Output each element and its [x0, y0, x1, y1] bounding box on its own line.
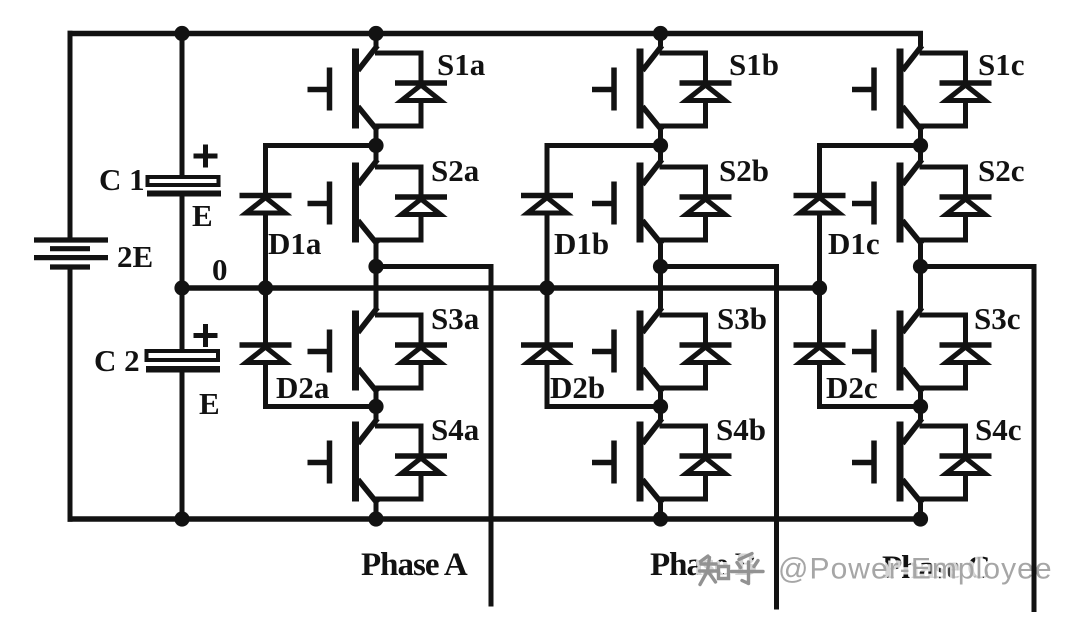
wire: S4b collector stub: [658, 407, 663, 420]
svg-text:S3a: S3a: [431, 301, 480, 336]
junction node S3b-S4b: [653, 399, 668, 414]
junction node DC- / phase B: [653, 511, 668, 526]
wire: D1a branch vertical: [263, 143, 268, 288]
IGBT switch S4a: [308, 419, 378, 504]
svg-text:S4c: S4c: [975, 412, 1022, 447]
junction node DC+ / phase A: [368, 26, 383, 41]
svg-text:D2c: D2c: [826, 370, 878, 405]
wire: D2a branch vertical: [263, 288, 268, 409]
svg-text:E: E: [192, 198, 213, 233]
freewheel diode of S1a: [375, 53, 447, 126]
junction node DC- / C2: [174, 511, 189, 526]
freewheel diode of S2c: [920, 167, 992, 240]
freewheel diode of S3c: [920, 315, 992, 388]
IGBT switch S4b: [592, 419, 662, 504]
IGBT switch S2b: [592, 160, 662, 245]
wire: S1a emitter stub: [374, 130, 379, 146]
wire: D1c branch vertical: [817, 143, 822, 288]
clamp diode D2b: [521, 345, 573, 363]
svg-text:D2b: D2b: [550, 370, 605, 405]
svg-text:0: 0: [212, 252, 228, 287]
svg-text:S1a: S1a: [437, 47, 486, 82]
junction node D1b-D2b neutral tap: [539, 280, 554, 295]
wire: phase C output: [921, 267, 1035, 613]
junction node phase B output: [653, 259, 668, 274]
svg-text:2E: 2E: [117, 239, 153, 274]
wire: clamp upper link (J12 to D1b): [545, 143, 661, 148]
wire: left DC link upper segment: [68, 31, 73, 238]
junction node S3c-S4c: [913, 399, 928, 414]
wire: S3a emitter stub: [374, 392, 379, 407]
wire: clamp lower link (D2c to J34): [817, 404, 921, 409]
clamp diode D1b: [521, 196, 573, 214]
capacitor C2 (electrolytic): [146, 351, 220, 373]
wire: C2 top lead: [180, 288, 185, 352]
capacitor C1 (electrolytic): [147, 177, 221, 197]
junction node DC- / phase C: [913, 511, 928, 526]
freewheel diode of S2a: [375, 167, 447, 240]
C1 plus polarity mark: [194, 145, 218, 168]
wire: C1 bottom lead: [180, 197, 185, 289]
IGBT switch S4c: [852, 419, 922, 504]
junction node S1b-S2b: [653, 138, 668, 153]
svg-text:S4a: S4a: [431, 412, 480, 447]
svg-text:C 2: C 2: [94, 343, 140, 378]
junction node phase A output: [368, 259, 383, 274]
wire: D2b branch vertical: [545, 288, 550, 409]
wire: S3c collector stub: [918, 267, 923, 309]
svg-text:D1b: D1b: [554, 226, 609, 261]
junction node D1c-D2c neutral tap: [812, 280, 827, 295]
svg-text:S1b: S1b: [729, 47, 779, 82]
svg-text:S2a: S2a: [431, 153, 480, 188]
junction node S1a-S2a: [368, 138, 383, 153]
wire: D1b branch vertical: [545, 143, 550, 288]
wire: S4c emitter stub: [918, 503, 923, 519]
freewheel diode of S4c: [920, 426, 992, 499]
wire: S4a collector stub: [374, 407, 379, 420]
IGBT switch S1a: [308, 46, 378, 131]
wire: S3a collector stub: [374, 267, 379, 309]
IGBT switch S3b: [592, 308, 662, 393]
wire: C1 top lead: [180, 34, 185, 179]
freewheel diode of S4a: [375, 426, 447, 499]
wire: S1b emitter stub: [658, 130, 663, 146]
IGBT switch S3c: [852, 308, 922, 393]
wire: phase B output: [661, 267, 777, 610]
svg-text:S2b: S2b: [719, 153, 769, 188]
wire: D2c branch vertical: [817, 288, 822, 409]
wire: clamp lower link (D2a to J34): [263, 404, 376, 409]
svg-text:D1c: D1c: [828, 226, 880, 261]
junction node 0 (neutral): [174, 280, 189, 295]
IGBT switch S3a: [308, 308, 378, 393]
clamp diode D2c: [794, 345, 846, 363]
freewheel diode of S1c: [920, 53, 992, 126]
wire: S1a collector stub: [374, 34, 379, 47]
wire: S4a emitter stub: [374, 503, 379, 519]
IGBT switch S2a: [308, 160, 378, 245]
clamp diode D2a: [240, 345, 292, 363]
junction node S1c-S2c: [913, 138, 928, 153]
watermark zhihu @Power-Employee: [700, 553, 1053, 586]
wire: S4c collector stub: [918, 407, 923, 420]
clamp diode D1c: [794, 196, 846, 214]
wire: left DC link lower segment: [68, 270, 73, 522]
wire: S4b emitter stub: [658, 503, 663, 519]
wire: clamp upper link (J12 to D1a): [263, 143, 376, 148]
wire: C2 bottom lead: [180, 373, 185, 520]
junction node DC+ / C1: [174, 26, 189, 41]
wire: phase A output: [376, 267, 491, 607]
wire: neutral 0 bus: [182, 285, 820, 291]
battery 2E source: [34, 240, 108, 267]
wire: S3b emitter stub: [658, 392, 663, 407]
wire: S1b collector stub: [658, 34, 663, 47]
wire: S3b collector stub: [658, 267, 663, 309]
freewheel diode of S3a: [375, 315, 447, 388]
svg-text:D2a: D2a: [276, 370, 330, 405]
C2 plus polarity mark: [194, 324, 218, 347]
svg-text:S4b: S4b: [716, 412, 766, 447]
junction node phase C output: [913, 259, 928, 274]
junction node DC+ / phase B: [653, 26, 668, 41]
svg-text:C 1: C 1: [99, 162, 145, 197]
IGBT switch S2c: [852, 160, 922, 245]
wire: clamp upper link (J12 to D1c): [817, 143, 921, 148]
wire: S2c collector stub: [918, 146, 923, 161]
svg-text:S1c: S1c: [978, 47, 1025, 82]
freewheel diode of S3b: [660, 315, 732, 388]
freewheel diode of S1b: [660, 53, 732, 126]
junction node D1a-D2a neutral tap: [258, 280, 273, 295]
svg-text:S2c: S2c: [978, 153, 1025, 188]
svg-text:S3c: S3c: [974, 301, 1021, 336]
wire: clamp lower link (D2b to J34): [545, 404, 661, 409]
svg-text:Phase A: Phase A: [361, 547, 468, 583]
wire: S1c emitter stub: [918, 130, 923, 146]
wire: S2a collector stub: [374, 146, 379, 161]
svg-text:@Power-Employee: @Power-Employee: [778, 553, 1053, 586]
wire: S2b collector stub: [658, 146, 663, 161]
IGBT switch S1b: [592, 46, 662, 131]
clamp diode D1a: [240, 196, 292, 214]
wire: top DC+ rail: [68, 31, 924, 37]
wire: bottom DC- rail: [68, 516, 921, 522]
svg-text:E: E: [199, 386, 220, 421]
freewheel diode of S2b: [660, 167, 732, 240]
junction node S3a-S4a: [368, 399, 383, 414]
wire: S3c emitter stub: [918, 392, 923, 407]
freewheel diode of S4b: [660, 426, 732, 499]
wire: S1c collector stub: [918, 34, 923, 47]
svg-text:D1a: D1a: [268, 226, 322, 261]
IGBT switch S1c: [852, 46, 922, 131]
wire: S2c emitter stub: [918, 244, 923, 267]
svg-text:S3b: S3b: [717, 301, 767, 336]
wire: S2b emitter stub: [658, 244, 663, 267]
wire: S2a emitter stub: [374, 244, 379, 267]
junction node DC- / phase A: [368, 511, 383, 526]
